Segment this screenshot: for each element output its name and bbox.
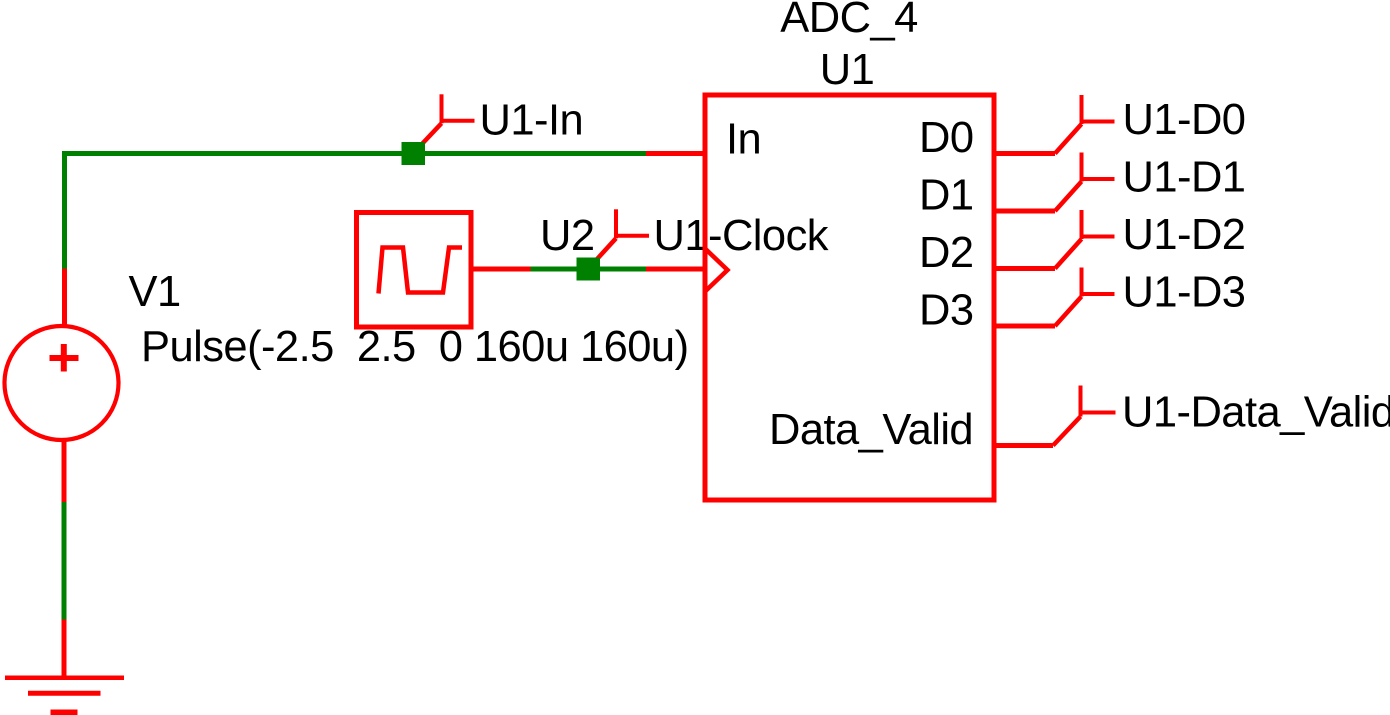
wire clock net green [531, 267, 649, 272]
terminal U1-D0 [1055, 95, 1115, 154]
pin label D1 [919, 172, 974, 220]
label U1-D1 [1123, 154, 1246, 202]
pin D3 wire [994, 324, 1055, 329]
pin label D3 [919, 287, 974, 335]
wire V1 top lead [62, 269, 67, 326]
pin D1 wire [994, 209, 1055, 214]
terminal U1-D1 [1055, 153, 1115, 212]
svg-text:D1: D1 [919, 172, 974, 220]
svg-text:U1-D2: U1-D2 [1123, 211, 1246, 259]
pin label In [726, 116, 761, 164]
clock pin wedge [705, 249, 728, 292]
svg-text:U1-In: U1-In [480, 96, 584, 144]
wire In net green [65, 154, 649, 271]
label U1-In [480, 96, 584, 144]
label U1-D3 [1123, 269, 1246, 317]
wire ground lead red [62, 620, 67, 678]
ground [5, 678, 124, 713]
svg-text:Data_Valid: Data_Valid [769, 406, 973, 454]
label V1 [129, 268, 181, 316]
pin D0 wire [994, 151, 1055, 156]
svg-text:U1-Clock: U1-Clock [654, 212, 829, 260]
svg-text:V1: V1 [129, 268, 181, 316]
label U1-D0 [1123, 96, 1246, 144]
svg-text:ADC_4: ADC_4 [780, 0, 917, 42]
svg-text:U1-D0: U1-D0 [1123, 96, 1246, 144]
svg-text:U1-D3: U1-D3 [1123, 269, 1246, 317]
pin Data_Valid wire [994, 443, 1053, 448]
svg-text:U1: U1 [820, 46, 875, 94]
label U1-Clock [654, 212, 829, 260]
wire ground net green [62, 502, 67, 621]
label U1-D2 [1123, 211, 1246, 259]
terminal U1-In [413, 94, 475, 153]
label U1-Data_Valid [1122, 389, 1390, 437]
svg-text:D3: D3 [919, 287, 974, 335]
label U2 [540, 212, 595, 260]
svg-text:U1-Data_Valid: U1-Data_Valid [1122, 389, 1390, 437]
terminal U1-D3 [1055, 268, 1115, 327]
pin label D0 [919, 114, 974, 162]
clock source U2 [357, 213, 472, 328]
junction node U1-Clock [577, 258, 601, 281]
label U1 [820, 46, 875, 94]
svg-text:In: In [726, 116, 761, 164]
voltage source V1 [5, 326, 119, 440]
svg-text:D0: D0 [919, 114, 974, 162]
pin label Data_Valid [769, 406, 973, 454]
wire V1 bottom lead red [62, 441, 67, 504]
svg-text:U2: U2 [540, 212, 595, 260]
terminal U1-Clock [588, 209, 649, 269]
label ADC_4 [780, 0, 917, 42]
svg-text:D2: D2 [919, 229, 974, 277]
svg-text:U1-D1: U1-D1 [1123, 154, 1246, 202]
terminal U1-D2 [1055, 210, 1115, 269]
junction node U1-In [402, 142, 426, 165]
pin D2 wire [994, 266, 1055, 271]
wire In net red segment to pin [646, 151, 705, 156]
ADC U1 box [705, 95, 994, 500]
pin label D2 [919, 229, 974, 277]
wire U2 output red [474, 267, 533, 272]
terminal U1-Data_Valid [1053, 386, 1116, 446]
value Pulse [141, 323, 689, 371]
svg-text:Pulse(-2.5 2.5 0 160u 160u): Pulse(-2.5 2.5 0 160u 160u) [141, 323, 689, 371]
wire clock red segment to pin [646, 267, 705, 272]
